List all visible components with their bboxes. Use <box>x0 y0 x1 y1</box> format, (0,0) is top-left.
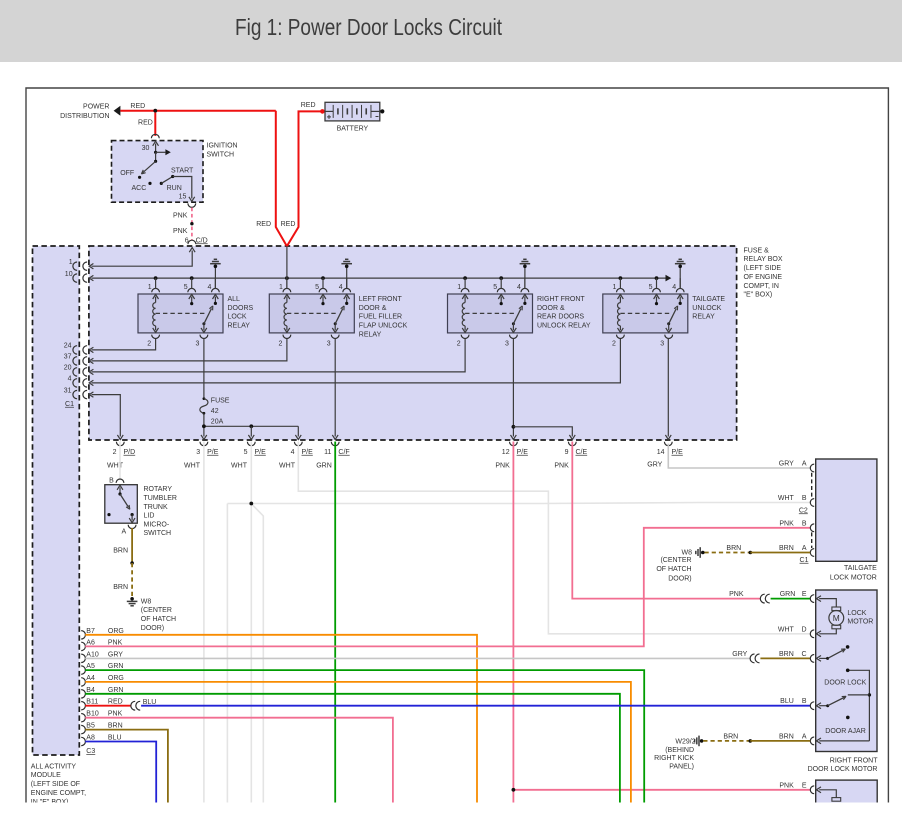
node bus to relay K4 pin 5 <box>655 276 659 280</box>
svg-text:RELAY: RELAY <box>692 314 715 321</box>
wire PNK fusebox pin 12 down to lower door lock motor pin E <box>512 442 514 803</box>
svg-text:GRY: GRY <box>647 461 662 468</box>
wire PNK module A6 to tailgate motor pin B <box>85 528 810 647</box>
svg-text:OFF: OFF <box>120 170 134 177</box>
lock motor pin B BLU door ajar switch <box>810 702 814 710</box>
fuse 42 20A <box>203 397 206 400</box>
svg-text:11: 11 <box>324 449 331 456</box>
svg-text:DOOR): DOOR) <box>141 625 164 632</box>
connector C/D into fuse box <box>188 240 196 244</box>
power distribution arrow <box>114 106 121 116</box>
lower motor pin E PNK <box>810 786 814 794</box>
relay K1 ALL DOORS LOCK RELAY <box>138 294 223 333</box>
svg-text:MICRO-: MICRO- <box>144 521 170 528</box>
module pin A10 GRY <box>81 654 85 662</box>
svg-text:RIGHT KICK: RIGHT KICK <box>654 755 694 762</box>
svg-text:B: B <box>802 698 807 705</box>
svg-text:4: 4 <box>291 449 295 456</box>
fuse & relay box (dashed) <box>89 246 737 440</box>
svg-text:BRN: BRN <box>108 723 123 730</box>
battery terminal node <box>380 109 384 113</box>
ignition switch box (dashed) <box>151 134 159 138</box>
ignition contact RUN <box>160 182 163 185</box>
svg-text:BRN: BRN <box>113 584 128 591</box>
svg-text:WHT: WHT <box>107 463 124 470</box>
door ajar switch contact <box>846 716 850 720</box>
svg-text:WHT: WHT <box>279 463 296 470</box>
svg-text:10: 10 <box>65 271 73 278</box>
svg-text:BRN: BRN <box>779 733 794 740</box>
svg-text:Fig 1: Power Door Locks Circui: Fig 1: Power Door Locks Circuit <box>235 14 502 40</box>
svg-text:1: 1 <box>612 284 616 291</box>
svg-text:5: 5 <box>493 284 497 291</box>
module pin A6 PNK <box>81 642 85 650</box>
module pin B4 GRN <box>81 690 85 698</box>
wire BLU connector to lock motor pin B <box>141 705 810 707</box>
svg-text:B: B <box>109 477 114 484</box>
svg-text:START: START <box>171 168 194 175</box>
svg-text:UNLOCK RELAY: UNLOCK RELAY <box>537 323 591 330</box>
wire ORG module B7 down at right <box>85 635 477 803</box>
wire WHT fusebox pin 5 down with junction <box>250 442 252 803</box>
svg-text:OF HATCH: OF HATCH <box>656 566 691 573</box>
svg-text:P/E: P/E <box>517 449 529 456</box>
svg-text:BLU: BLU <box>780 698 794 705</box>
node bus to relay K4 pin 1 <box>619 276 623 280</box>
svg-text:RED: RED <box>281 221 296 228</box>
svg-text:LOCK MOTOR: LOCK MOTOR <box>830 574 877 581</box>
svg-text:OF HATCH: OF HATCH <box>141 616 176 623</box>
module pin 1 and wire to C/D <box>73 262 77 270</box>
module pin A8 BLU <box>81 737 85 745</box>
svg-text:BRN: BRN <box>723 733 738 740</box>
node door switch common <box>868 693 871 696</box>
svg-text:RIGHT FRONT: RIGHT FRONT <box>830 758 878 765</box>
svg-text:12: 12 <box>502 449 510 456</box>
svg-text:PNK: PNK <box>554 463 569 470</box>
svg-text:DISTRIBUTION: DISTRIBUTION <box>60 113 109 120</box>
svg-text:3: 3 <box>505 341 509 348</box>
module pin 20 wire to relay K3 pin 2 <box>73 368 77 376</box>
wire WHT fusebox pin 3 down <box>203 442 205 803</box>
wire relay K2 pin 3 to fusebox pin 11 <box>334 338 336 436</box>
connector GRY-BRN at lock motor pin C <box>750 654 754 663</box>
svg-text:5: 5 <box>315 284 319 291</box>
svg-text:C3: C3 <box>86 748 95 755</box>
svg-text:A10: A10 <box>86 651 99 658</box>
ignition switch internals <box>153 141 159 146</box>
svg-text:GRN: GRN <box>108 687 124 694</box>
lock motor pin D WHT <box>810 630 814 638</box>
ignition contact OFF <box>138 176 141 179</box>
svg-text:B5: B5 <box>86 723 95 730</box>
battery <box>325 102 380 121</box>
svg-text:TUMBLER: TUMBLER <box>144 495 177 502</box>
svg-text:W29/2: W29/2 <box>675 738 695 745</box>
wire relay K1 pin 3 to fuse 42 <box>203 338 205 397</box>
svg-text:GRY: GRY <box>779 461 794 468</box>
svg-text:RELAY: RELAY <box>359 331 382 338</box>
svg-text:WHT: WHT <box>778 626 795 633</box>
svg-text:A: A <box>122 528 127 535</box>
svg-text:E: E <box>802 782 807 789</box>
tailgate connector dashes C1 <box>811 532 813 548</box>
svg-text:5: 5 <box>244 449 248 456</box>
svg-text:TAILGATE: TAILGATE <box>692 296 725 303</box>
svg-text:30: 30 <box>142 145 150 152</box>
wire RED power distribution to junction <box>120 110 275 112</box>
wire BRN module B5 down <box>85 730 168 803</box>
connector PNK-GRN at lock motor pin E <box>760 594 764 603</box>
fusebox pin 3 P/E <box>200 442 208 446</box>
wire RED junction down to ignition switch <box>154 113 156 136</box>
svg-text:A4: A4 <box>86 675 95 682</box>
svg-text:RIGHT FRONT: RIGHT FRONT <box>537 296 585 303</box>
svg-text:BATTERY: BATTERY <box>337 125 369 132</box>
lock motor M winding <box>816 596 821 602</box>
svg-text:DOOR AJAR: DOOR AJAR <box>825 728 865 735</box>
svg-text:2: 2 <box>147 341 151 348</box>
svg-text:(CENTER: (CENTER <box>141 607 172 614</box>
svg-text:(LEFT SIDE OF: (LEFT SIDE OF <box>31 781 80 788</box>
wire GRN module B4 down at right <box>85 694 620 803</box>
tailgate motor pin A GRY <box>810 464 814 472</box>
wire door lock contact to pin A <box>848 670 870 741</box>
svg-text:RELAY: RELAY <box>228 323 251 330</box>
connector RED-BLU <box>131 701 135 710</box>
wire PNK fusebox pin 9 to lock motor pin E connector <box>572 442 761 599</box>
module pin B11 RED <box>81 702 85 710</box>
svg-text:PNK: PNK <box>779 782 794 789</box>
wire BRN connector to lock motor pin C <box>760 657 810 659</box>
svg-text:ORG: ORG <box>108 628 124 635</box>
svg-text:A: A <box>802 461 807 468</box>
svg-text:1: 1 <box>457 284 461 291</box>
tailgate motor pin B WHT <box>810 499 814 507</box>
ground W8 (center of hatch door) <box>130 597 134 601</box>
svg-text:M: M <box>833 613 840 623</box>
wire GRN module A5 down at right <box>85 670 644 803</box>
module pin A5 GRN <box>81 666 85 674</box>
svg-text:BLU: BLU <box>108 735 122 742</box>
ground above relay K4 pin 4 <box>678 265 682 269</box>
svg-text:A8: A8 <box>86 735 95 742</box>
svg-text:FUSE &: FUSE & <box>744 247 770 254</box>
svg-text:PANEL): PANEL) <box>669 763 694 770</box>
node power junction <box>153 109 157 113</box>
svg-text:SWITCH: SWITCH <box>144 530 172 537</box>
wire relay K3 pin 3 to fusebox pins 12/9 <box>512 338 514 436</box>
svg-text:1: 1 <box>69 259 73 266</box>
module pin A4 ORG <box>81 678 85 686</box>
svg-text:GRY: GRY <box>108 651 123 658</box>
wire BRN rotary A to ground W8 <box>131 528 133 563</box>
svg-text:3: 3 <box>660 341 664 348</box>
svg-text:P/E: P/E <box>672 449 684 456</box>
svg-text:C/D: C/D <box>196 237 208 244</box>
svg-text:A6: A6 <box>86 639 95 646</box>
tailgate connector dashes C2 <box>811 473 813 498</box>
svg-text:WHT: WHT <box>778 495 795 502</box>
fusebox pin 14 P/E <box>664 442 672 446</box>
module pin 37 wire to relay K2 pin 2 <box>73 357 77 365</box>
wire fuse to fusebox pins 3/5/4 <box>203 413 205 436</box>
fusebox pin 4 P/E <box>294 442 302 446</box>
svg-text:2: 2 <box>612 341 616 348</box>
svg-text:MOTOR: MOTOR <box>847 619 873 626</box>
svg-text:W8: W8 <box>141 598 152 605</box>
svg-text:B7: B7 <box>86 628 95 635</box>
fusebox pin 12 P/E <box>510 442 518 446</box>
ignition contact START and arm <box>161 177 172 184</box>
svg-text:P/E: P/E <box>207 449 219 456</box>
svg-text:LID: LID <box>144 513 155 520</box>
relay K2 LEFT FRONT DOOR & FUEL FILLER FLAP UNLOCK RELAY <box>269 294 354 333</box>
right front door lock motor box <box>816 590 877 752</box>
svg-text:GRN: GRN <box>780 591 796 598</box>
svg-text:DOOR LOCK: DOOR LOCK <box>824 680 866 687</box>
svg-text:PNK: PNK <box>495 463 510 470</box>
svg-text:4: 4 <box>672 284 676 291</box>
svg-text:PNK: PNK <box>108 639 123 646</box>
svg-text:"E" BOX): "E" BOX) <box>744 292 773 299</box>
svg-text:(BEHIND: (BEHIND <box>665 747 694 754</box>
svg-text:BRN: BRN <box>726 545 741 552</box>
svg-text:ALL: ALL <box>228 296 241 303</box>
svg-text:A: A <box>802 545 807 552</box>
svg-text:37: 37 <box>64 354 72 361</box>
svg-text:RUN: RUN <box>167 185 182 192</box>
svg-text:RED: RED <box>256 221 271 228</box>
battery B+ terminal <box>320 109 325 114</box>
module pin 24 wire to relay K1 pin 2 <box>73 346 77 354</box>
wire ORG module A4 down at right <box>85 682 631 803</box>
svg-text:PNK: PNK <box>729 591 744 598</box>
svg-text:C2: C2 <box>799 507 808 514</box>
svg-text:GRY: GRY <box>732 651 747 658</box>
fusebox pin 2 P/D <box>116 442 124 446</box>
svg-text:LOCK: LOCK <box>847 610 866 617</box>
svg-text:3: 3 <box>196 449 200 456</box>
tailgate motor pin B PNK <box>810 524 814 532</box>
module pin 10 and bus wire <box>73 274 77 282</box>
lock motor pin C BRN door lock switch <box>810 655 814 663</box>
svg-text:PNK: PNK <box>779 520 794 527</box>
svg-text:4: 4 <box>207 284 211 291</box>
module pin B7 ORG <box>81 631 85 639</box>
node fuse branch pin 5 <box>249 424 253 428</box>
svg-text:31: 31 <box>64 387 72 394</box>
tailgate motor pin A BRN <box>810 549 814 557</box>
svg-text:OF ENGINE: OF ENGINE <box>744 274 783 281</box>
ground W29/2 splice to lock motor pin A <box>700 739 704 743</box>
svg-text:20A: 20A <box>211 419 224 426</box>
svg-text:ENGINE COMPT,: ENGINE COMPT, <box>31 790 86 797</box>
wire PNK ignition to C/D connector <box>191 208 193 241</box>
wire WHT fusebox pin 2 to rotary switch B <box>119 442 121 481</box>
node bus to relay K1 pin 5 <box>190 276 194 280</box>
svg-text:FUEL FILLER: FUEL FILLER <box>359 314 402 321</box>
node bus to relay K1 pin 1 <box>154 276 158 280</box>
svg-text:14: 14 <box>657 449 665 456</box>
svg-text:3: 3 <box>195 341 199 348</box>
svg-text:C/E: C/E <box>576 449 588 456</box>
node WHT junction <box>249 502 253 506</box>
door lock switch contact <box>846 645 850 649</box>
svg-text:C1: C1 <box>800 557 809 564</box>
svg-text:2: 2 <box>278 341 282 348</box>
svg-text:P/E: P/E <box>255 449 267 456</box>
node bus to relay K3 pin 1 <box>463 276 467 280</box>
svg-text:ACC: ACC <box>132 185 147 192</box>
svg-text:DOOR &: DOOR & <box>537 305 565 312</box>
svg-text:D: D <box>802 626 807 633</box>
node bus red feed / relay K2 pin 1 <box>285 276 289 280</box>
svg-text:UNLOCK: UNLOCK <box>692 305 722 312</box>
svg-text:LEFT FRONT: LEFT FRONT <box>359 296 403 303</box>
wire PNK module B10 down at right <box>85 718 393 803</box>
svg-text:42: 42 <box>211 408 219 415</box>
svg-text:P/D: P/D <box>124 449 136 456</box>
svg-text:RED: RED <box>108 699 123 706</box>
svg-text:A5: A5 <box>86 663 95 670</box>
svg-text:ALL ACTIVITY: ALL ACTIVITY <box>31 763 77 770</box>
ground above relay K3 pin 4 <box>523 265 527 269</box>
wire RED module B11 to connector <box>85 705 131 707</box>
svg-text:24: 24 <box>64 343 72 350</box>
svg-text:2: 2 <box>457 341 461 348</box>
svg-text:20: 20 <box>64 365 72 372</box>
svg-text:P/E: P/E <box>302 449 314 456</box>
fusebox pin 9 C/E <box>568 442 576 446</box>
lower door lock motor box (clipped) <box>816 780 878 820</box>
svg-text:4: 4 <box>517 284 521 291</box>
fusebox pin 5 P/E <box>247 442 255 446</box>
svg-text:TRUNK: TRUNK <box>144 504 168 511</box>
wire GRY fusebox pin 14 to tailgate motor pin A <box>668 444 810 468</box>
svg-text:RED: RED <box>301 102 316 109</box>
svg-text:LOCK: LOCK <box>228 314 247 321</box>
svg-text:(CENTER: (CENTER <box>660 557 691 564</box>
svg-text:PNK: PNK <box>173 228 188 235</box>
svg-text:1: 1 <box>279 284 283 291</box>
svg-text:4: 4 <box>68 376 72 383</box>
svg-text:REAR DOORS: REAR DOORS <box>537 314 584 321</box>
wire WHT fusebox pin 4 to lock motor pin D <box>298 442 810 634</box>
svg-text:C1: C1 <box>65 401 74 408</box>
svg-text:W8: W8 <box>682 549 693 556</box>
ground W8 splice to tailgate pin A <box>701 551 705 555</box>
module pin 31 wire to fusebox pin 2 <box>73 390 77 398</box>
svg-text:BRN: BRN <box>779 545 794 552</box>
svg-text:RED: RED <box>138 120 153 127</box>
lock motor pin E GRN <box>810 595 814 603</box>
svg-text:WHT: WHT <box>231 463 248 470</box>
svg-text:GRN: GRN <box>316 463 332 470</box>
svg-text:BRN: BRN <box>113 548 128 555</box>
svg-text:PNK: PNK <box>173 213 188 220</box>
node bus to relay K3 pin 5 <box>499 276 503 280</box>
svg-text:DOOR): DOOR) <box>668 575 691 582</box>
svg-text:1: 1 <box>148 284 152 291</box>
svg-text:WHT: WHT <box>184 463 201 470</box>
fusebox pin 11 C/F <box>331 442 339 446</box>
svg-text:RED: RED <box>130 103 145 110</box>
wire RED battery to relay box (right leg of V) <box>287 111 323 246</box>
relay K3 RIGHT FRONT DOOR & REAR DOORS UNLOCK RELAY <box>448 294 533 333</box>
lock motor pin A BRN <box>810 737 814 745</box>
svg-text:C/F: C/F <box>338 449 349 456</box>
svg-text:DOOR LOCK MOTOR: DOOR LOCK MOTOR <box>808 766 878 773</box>
svg-text:5: 5 <box>649 284 653 291</box>
svg-text:B4: B4 <box>86 687 95 694</box>
svg-text:B: B <box>802 520 807 527</box>
svg-text:A: A <box>802 733 807 740</box>
svg-text:RELAY BOX: RELAY BOX <box>744 256 783 263</box>
svg-text:2: 2 <box>113 449 117 456</box>
wire BLU module A8 down <box>85 742 156 803</box>
ground above relay K1 pin 4 <box>214 265 218 269</box>
module pin B5 BRN <box>81 725 85 733</box>
svg-text:C: C <box>802 651 807 658</box>
node bus to relay K2 pin 5 <box>321 276 325 280</box>
svg-text:4: 4 <box>339 284 343 291</box>
svg-text:(LEFT SIDE: (LEFT SIDE <box>744 265 782 272</box>
svg-text:B11: B11 <box>86 699 98 706</box>
svg-text:FUSE: FUSE <box>211 398 230 405</box>
splice on PNK wire <box>190 222 193 225</box>
svg-text:B: B <box>802 495 807 502</box>
module pin B10 PNK <box>81 714 85 722</box>
node fuse branch pin 3 <box>202 424 206 428</box>
svg-text:SWITCH: SWITCH <box>207 152 235 159</box>
wire GRN connector to lock motor pin E <box>771 598 811 600</box>
svg-text:E: E <box>802 591 807 598</box>
tailgate lock motor box <box>816 459 877 561</box>
svg-text:B10: B10 <box>86 711 99 718</box>
splice on BRN <box>130 561 134 565</box>
relay K4 TAILGATE UNLOCK RELAY <box>603 294 688 333</box>
title header bar <box>0 0 902 62</box>
svg-text:GRN: GRN <box>108 663 124 670</box>
svg-text:PNK: PNK <box>108 711 123 718</box>
module pin 4 wire to relay K4 pin 2 <box>73 379 77 387</box>
wire GRN fusebox pin 11 down <box>334 442 336 803</box>
svg-text:3: 3 <box>327 341 331 348</box>
svg-text:BRN: BRN <box>779 651 794 658</box>
svg-text:MODULE: MODULE <box>31 772 61 779</box>
all activity module box (dashed) <box>33 246 80 755</box>
svg-text:15: 15 <box>179 194 187 201</box>
svg-text:TAILGATE: TAILGATE <box>844 565 877 572</box>
svg-text:ROTARY: ROTARY <box>144 486 173 493</box>
svg-text:FLAP UNLOCK: FLAP UNLOCK <box>359 323 408 330</box>
ground above relay K2 pin 4 <box>345 265 349 269</box>
svg-text:ORG: ORG <box>108 675 124 682</box>
svg-text:POWER: POWER <box>83 104 109 111</box>
wire ignition 15 output <box>173 177 192 199</box>
wire RED junction to relay box (left leg of V) <box>276 111 287 247</box>
svg-text:9: 9 <box>565 449 569 456</box>
svg-text:IGNITION: IGNITION <box>207 142 238 149</box>
svg-text:5: 5 <box>184 284 188 291</box>
svg-text:COMPT, IN: COMPT, IN <box>744 283 779 290</box>
svg-text:DOORS: DOORS <box>228 305 254 312</box>
node PNK junction <box>512 788 516 792</box>
svg-text:DOOR &: DOOR & <box>359 305 387 312</box>
wire GRY module A10 to lock motor pin C connector <box>85 657 751 659</box>
wire relay K4 pin 3 to fusebox pin 14 <box>667 338 669 436</box>
